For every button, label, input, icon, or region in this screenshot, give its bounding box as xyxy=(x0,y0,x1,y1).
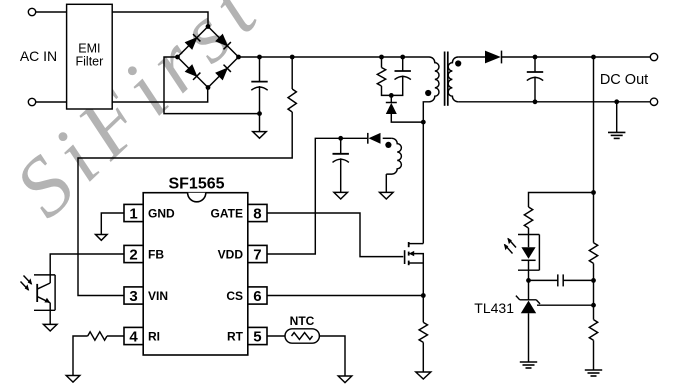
transformer aux phase dot xyxy=(385,142,391,148)
svg-text:TL431: TL431 xyxy=(474,300,514,316)
resistor R7 divider top xyxy=(589,243,597,264)
wire xyxy=(112,88,208,103)
svg-text:Filter: Filter xyxy=(76,55,104,69)
pin 7 box xyxy=(248,245,267,262)
optocoupler U3 LED xyxy=(518,235,539,271)
terminal AC line bottom xyxy=(28,98,35,105)
wire xyxy=(385,174,387,192)
capacitor C2 snubber xyxy=(400,55,405,60)
wire sense xyxy=(591,55,596,60)
transformer T1 primary xyxy=(424,57,439,102)
svg-text:3: 3 xyxy=(129,288,137,305)
wire pin7 VDD xyxy=(267,138,367,254)
diode D4 xyxy=(216,65,231,80)
pin 3 box xyxy=(124,287,143,304)
svg-text:GND: GND xyxy=(148,207,175,221)
diode D3 xyxy=(185,65,200,80)
EMI filter block xyxy=(67,4,113,109)
svg-text:VIN: VIN xyxy=(148,289,168,303)
svg-text:SF1565: SF1565 xyxy=(168,176,224,193)
pin 5 box xyxy=(248,327,267,344)
diode D2 xyxy=(216,34,231,49)
pin 4 box xyxy=(124,327,143,344)
node xyxy=(175,55,180,60)
ground sense xyxy=(416,372,431,379)
pin 8 box xyxy=(248,204,267,221)
wire emitter xyxy=(49,303,51,325)
wire pin6 CS xyxy=(267,295,423,297)
node xyxy=(206,85,211,90)
shunt regulator U4 TL431 xyxy=(537,304,594,306)
svg-text:DC Out: DC Out xyxy=(600,72,648,88)
capacitor C1 bulk xyxy=(259,57,261,81)
diode D6 output rectifier xyxy=(485,51,501,64)
transformer T1 secondary xyxy=(448,57,458,102)
capacitor C6 compensation xyxy=(529,279,594,281)
ground output xyxy=(614,99,619,104)
ground aux xyxy=(380,192,394,199)
ground NTC xyxy=(338,376,352,383)
transistor Q2 MOSFET xyxy=(404,250,406,264)
node drain/clamp xyxy=(421,120,426,125)
svg-text:6: 6 xyxy=(253,288,261,305)
wire DC minus xyxy=(164,57,260,114)
diode D1 xyxy=(185,34,200,49)
transformer core xyxy=(444,52,446,106)
bridge rectifier frame xyxy=(178,27,239,88)
op-amp U1 SF1565 body xyxy=(143,193,248,355)
resistor R6 LED series xyxy=(524,207,532,228)
wire xyxy=(112,12,208,27)
wire pin2 FB xyxy=(50,254,124,283)
transistor Q1 optocoupler xyxy=(34,275,55,310)
terminal DC Out plus xyxy=(650,53,657,60)
wire xyxy=(529,193,594,208)
capacitor C3 output xyxy=(533,55,538,60)
svg-text:7: 7 xyxy=(253,247,261,264)
pin 2 box xyxy=(124,245,143,262)
ground TL431 xyxy=(520,361,537,363)
svg-text:NTC: NTC xyxy=(290,314,315,328)
ground optocoupler xyxy=(43,324,57,331)
resistor R4 RI xyxy=(88,332,107,340)
watermark xyxy=(0,0,282,236)
wire xyxy=(502,56,651,58)
resistor R1 startup xyxy=(290,55,295,60)
thermistor NTC xyxy=(285,329,319,343)
resistor R2 snubber xyxy=(379,55,384,60)
light arrows xyxy=(21,276,32,291)
svg-text:AC IN: AC IN xyxy=(20,48,57,64)
wire pin1 xyxy=(101,213,124,235)
wire output return xyxy=(458,101,650,103)
svg-text:5: 5 xyxy=(253,329,261,346)
pin 6 box xyxy=(248,287,267,304)
pin 1 box xyxy=(124,204,143,221)
svg-text:EMI: EMI xyxy=(78,42,100,56)
svg-text:RI: RI xyxy=(148,330,160,344)
wire xyxy=(319,336,345,376)
node xyxy=(236,55,241,60)
svg-text:8: 8 xyxy=(253,206,261,223)
transformer primary phase dot xyxy=(425,90,431,96)
resistor R5 sense xyxy=(419,322,427,342)
terminal AC line top xyxy=(28,8,35,15)
node xyxy=(206,24,211,29)
svg-text:1: 1 xyxy=(129,206,137,223)
diode D5 clamp xyxy=(390,95,392,102)
wire xyxy=(36,11,67,13)
ground xyxy=(253,132,267,139)
svg-text:CS: CS xyxy=(226,289,243,303)
svg-text:FB: FB xyxy=(148,248,164,262)
terminal DC Out minus xyxy=(650,98,657,105)
resistor R8 divider bottom xyxy=(589,320,597,341)
LED emission arrows xyxy=(505,239,517,254)
wire xyxy=(458,56,485,58)
wire pin4 xyxy=(107,335,124,337)
transformer secondary phase dot xyxy=(455,60,461,66)
svg-text:4: 4 xyxy=(129,329,138,346)
wire pin8 GATE xyxy=(267,213,403,257)
ground pin1 xyxy=(96,235,108,241)
wire xyxy=(36,101,67,103)
svg-text:VDD: VDD xyxy=(218,248,244,262)
wire pin5 xyxy=(267,335,285,337)
svg-text:2: 2 xyxy=(129,247,137,264)
ground RI xyxy=(66,376,80,383)
svg-text:GATE: GATE xyxy=(211,207,243,221)
ground C4 xyxy=(334,192,348,199)
svg-text:RT: RT xyxy=(227,330,244,344)
transformer T1 aux winding xyxy=(386,138,401,174)
wire DC plus rail xyxy=(239,56,430,58)
ground divider xyxy=(585,369,602,371)
capacitor C4 VDD xyxy=(338,136,343,141)
diode D7 aux rectifier xyxy=(367,133,369,144)
